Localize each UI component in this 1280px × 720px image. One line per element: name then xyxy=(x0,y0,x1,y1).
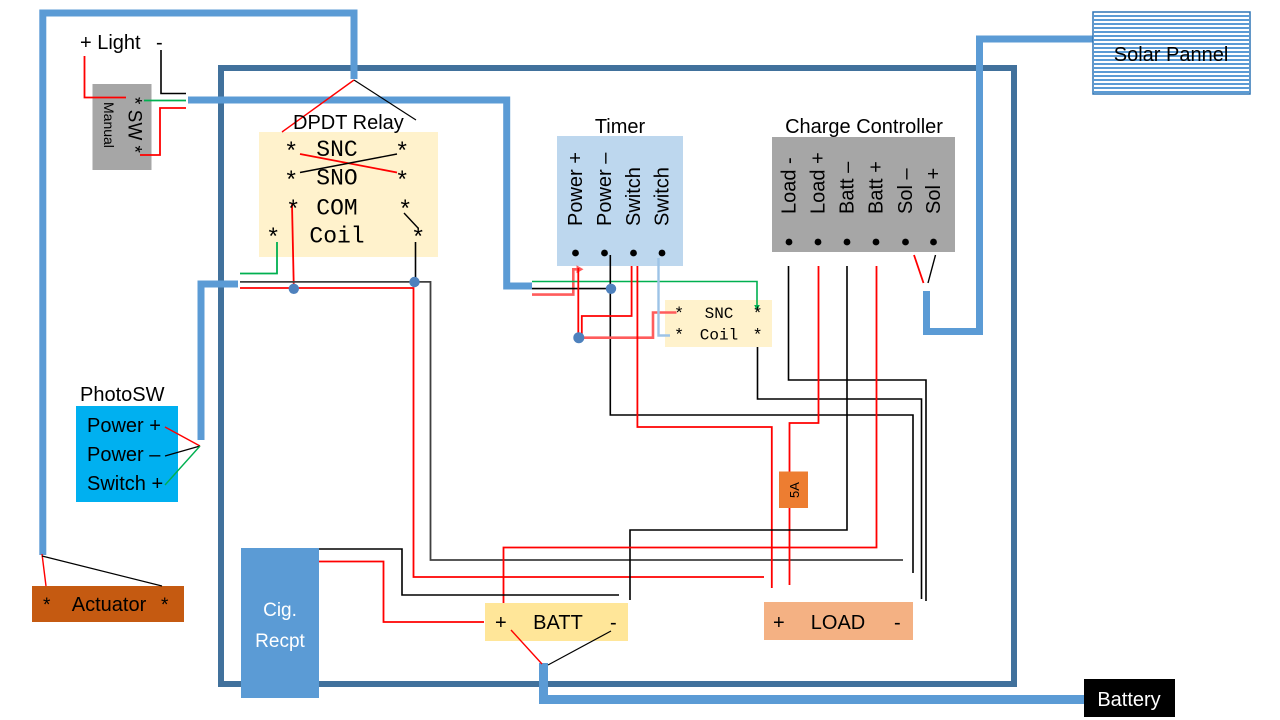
wire callout to relay SNC right (black) xyxy=(354,80,416,120)
svg-text:Cig.: Cig. xyxy=(263,600,297,621)
svg-text:Switch +: Switch + xyxy=(87,473,163,495)
svg-text:*: * xyxy=(266,226,280,253)
wire relay COM to Coil right (black) xyxy=(404,213,418,228)
relay U4 pin rows (mono) xyxy=(674,305,763,346)
label Solar Pannel xyxy=(1114,44,1229,66)
relay U1 pin rows (mono) xyxy=(266,137,425,253)
svg-text:*: * xyxy=(395,140,409,167)
cigarette receptacle J1 body xyxy=(241,548,319,698)
fuse F1 label (rotated) xyxy=(787,482,802,498)
wire timer switch to junction (red) xyxy=(582,266,632,338)
svg-text:+: + xyxy=(773,612,785,634)
wire photoswitch power plus (red) xyxy=(165,427,200,446)
svg-text:Timer: Timer xyxy=(595,116,646,138)
actuator M1 body xyxy=(32,586,184,622)
wire SW upper pin to node (green) xyxy=(144,100,186,102)
wire relay crossover SNC-SNO (red) xyxy=(300,154,397,173)
svg-text:SNC: SNC xyxy=(705,305,734,323)
wire sol minus diagonal (red) xyxy=(914,255,924,283)
label Battery xyxy=(1097,689,1160,711)
wire actuator feed (red) xyxy=(42,554,46,586)
battery terminal labels xyxy=(495,612,617,634)
svg-text:Battery: Battery xyxy=(1097,689,1160,711)
svg-text:-: - xyxy=(610,612,617,634)
wire node to timer power minus (black) xyxy=(532,288,611,290)
wire node to small relay SNC right with arrow (green) xyxy=(532,282,760,312)
solar panel PV1 body xyxy=(1093,12,1250,94)
wire charge controller batt minus (black) xyxy=(630,266,847,600)
wire charge controller load minus (black) xyxy=(789,266,927,601)
wire relay Coil right down (black) xyxy=(415,242,417,282)
svg-text:Switch: Switch xyxy=(652,167,674,226)
charge controller U3 pin labels (rotated) xyxy=(779,152,946,214)
svg-text:DPDT Relay: DPDT Relay xyxy=(293,112,404,134)
wire junction to small relay SNC left (salmon) xyxy=(579,313,677,338)
wire node stub to photoswitch (thick light blue) xyxy=(201,284,238,440)
svg-text:Switch: Switch xyxy=(623,167,645,226)
svg-text:Recpt: Recpt xyxy=(255,631,305,652)
svg-text:*: * xyxy=(43,595,51,616)
node junction on red bus xyxy=(289,284,299,294)
svg-text:SNC: SNC xyxy=(316,137,357,163)
svg-text:*: * xyxy=(284,140,298,167)
battery terminal block BATT xyxy=(485,603,628,641)
charge controller pin dots xyxy=(786,239,937,246)
svg-text:Charge Controller: Charge Controller xyxy=(785,116,943,138)
wire battery cable bottom (thick light blue) xyxy=(544,663,1085,700)
manual switch SW box xyxy=(93,84,152,170)
svg-text:+: + xyxy=(495,612,507,634)
wire actuator return (black) xyxy=(42,556,162,586)
svg-text:*: * xyxy=(398,198,412,225)
node junction timer switch xyxy=(573,332,584,343)
wire timer switch to small relay coil (thin light blue) xyxy=(659,258,671,336)
wire relay Coil left to node (green) xyxy=(240,242,277,274)
svg-text:Sol –: Sol – xyxy=(895,168,917,214)
svg-text:-: - xyxy=(894,612,901,634)
wire batt plus diagonal (red) xyxy=(511,630,542,664)
timer U2 pin labels (rotated) xyxy=(565,152,674,226)
svg-text:Manual: Manual xyxy=(101,102,117,148)
label Timer title xyxy=(595,116,646,138)
wire timer power plus feed with arrow (salmon) xyxy=(532,265,584,294)
wire cig receptacle negative (black) xyxy=(319,549,619,595)
wire solar panel feed (thick light blue) xyxy=(927,39,1094,332)
wire small relay coil right bus (black) xyxy=(758,347,922,599)
svg-text:LOAD: LOAD xyxy=(811,612,865,634)
wire batt minus diagonal (black) xyxy=(548,631,611,665)
wire SW lower pin to node (red) xyxy=(140,108,186,155)
svg-text:*: * xyxy=(411,226,425,253)
svg-text:Batt +: Batt + xyxy=(866,161,888,214)
svg-text:PhotoSW: PhotoSW xyxy=(80,384,165,406)
wire timer switch to load plus (red) xyxy=(637,266,771,588)
svg-text:Power –: Power – xyxy=(594,152,616,226)
wire photoswitch switch plus (green) xyxy=(165,446,200,485)
svg-text:Actuator: Actuator xyxy=(72,594,147,616)
load terminal labels xyxy=(773,612,901,634)
photoswitch U5 pin labels xyxy=(87,415,163,495)
label Charge Controller title xyxy=(785,116,943,138)
wire timer power plus down to junction (red) xyxy=(577,268,579,338)
charge controller U3 body xyxy=(772,137,955,252)
node junction on black bus xyxy=(409,277,419,287)
label DPDT Relay title xyxy=(293,112,404,134)
relay U4 small SNC/Coil body xyxy=(665,300,772,347)
svg-text:*: * xyxy=(395,169,409,196)
svg-text:* SW *: * SW * xyxy=(124,97,145,154)
svg-text:Batt –: Batt – xyxy=(837,161,859,214)
svg-text:*: * xyxy=(161,595,169,616)
svg-text:*: * xyxy=(753,327,763,346)
timer U2 body xyxy=(557,136,683,266)
svg-text:SNO: SNO xyxy=(316,166,357,192)
svg-text:Load +: Load + xyxy=(808,152,830,214)
svg-text:Coil: Coil xyxy=(700,327,738,345)
label light terminals xyxy=(80,32,163,54)
svg-text:+ Light: + Light xyxy=(80,32,141,54)
wire battery positive left loop (thick light blue) xyxy=(43,13,354,555)
wire relay COM left down (red) xyxy=(292,204,294,288)
label actuator M1 xyxy=(43,594,169,616)
battery B1 body xyxy=(1084,679,1175,717)
wire sol plus diagonal (black) xyxy=(928,255,936,283)
fuse F1 5A body xyxy=(779,472,808,509)
label cig receptacle xyxy=(255,600,305,652)
svg-text:*: * xyxy=(674,306,684,325)
photoswitch U5 body xyxy=(76,406,178,502)
label PhotoSW title xyxy=(80,384,165,406)
wire node to load positive bus (red) xyxy=(240,288,764,577)
wire charge controller batt plus (red) xyxy=(504,266,877,603)
wire cig receptacle positive (red) xyxy=(319,562,484,623)
svg-text:Power –: Power – xyxy=(87,444,161,466)
svg-text:-: - xyxy=(156,32,163,54)
timer pin dots xyxy=(572,250,665,257)
wire switch feed (thick light blue) xyxy=(188,100,532,286)
wire light minus to node (black) xyxy=(161,50,186,94)
svg-text:*: * xyxy=(674,327,684,346)
svg-text:Sol +: Sol + xyxy=(923,168,945,214)
svg-text:5A: 5A xyxy=(787,482,802,498)
wire charge controller load plus via fuse (red) xyxy=(790,266,819,585)
svg-text:*: * xyxy=(284,169,298,196)
svg-text:Coil: Coil xyxy=(309,224,364,250)
wire callout to relay SNC left (red) xyxy=(282,80,354,132)
svg-text:Power +: Power + xyxy=(87,415,161,437)
svg-text:Solar Pannel: Solar Pannel xyxy=(1114,44,1229,66)
svg-text:BATT: BATT xyxy=(533,612,583,634)
node junction timer power minus xyxy=(606,284,616,294)
load terminal block LOAD xyxy=(764,602,913,640)
svg-text:*: * xyxy=(753,306,763,325)
wire timer power minus bus (black) xyxy=(610,255,913,573)
wire main frame loop (dark blue) xyxy=(221,68,1014,684)
label SW manual (rotated) xyxy=(101,97,145,154)
svg-text:Power +: Power + xyxy=(565,152,587,226)
relay U1 DPDT body xyxy=(259,132,438,257)
svg-text:COM: COM xyxy=(316,196,357,222)
wire light plus to SW pin (red) xyxy=(85,56,127,98)
svg-text:*: * xyxy=(286,198,300,225)
wire node to load negative bus (black) xyxy=(240,282,903,560)
svg-text:Load -: Load - xyxy=(779,157,801,214)
wire relay crossover SNO-SNC (black) xyxy=(300,154,397,173)
wire photoswitch power minus (black) xyxy=(165,446,200,456)
